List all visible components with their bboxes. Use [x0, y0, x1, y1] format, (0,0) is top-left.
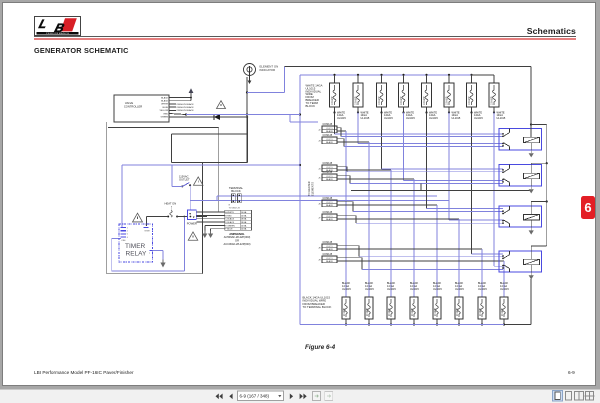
switch S2 heat on [165, 202, 179, 218]
svg-text:14GA: 14GA [241, 224, 247, 227]
svg-text:LOAD: LOAD [121, 239, 126, 242]
svg-text:J6: J6 [318, 204, 321, 206]
svg-text:1: 1 [127, 227, 128, 229]
label wire note top [306, 84, 323, 108]
wire breaker CB1 to relay contact [335, 113, 504, 135]
svg-text:J4: J4 [318, 169, 321, 171]
wire J2 lower row to bottom breaker [337, 131, 346, 297]
wire J5 lower row to bottom breaker [337, 179, 414, 297]
svg-text:VALVE: VALVE [125, 101, 133, 105]
connector J6 CON6-25 [318, 198, 337, 207]
svg-text:UL1015: UL1015 [433, 288, 442, 291]
connector J8 CON6-25 [318, 242, 337, 251]
terminal block TB1 [229, 186, 244, 210]
wire blue feed horizontal [186, 115, 318, 123]
wire inner routing [108, 117, 247, 212]
svg-text:UL1015: UL1015 [342, 288, 351, 291]
svg-text:BLACK: BLACK [161, 100, 168, 103]
svg-text:INDICATOR: INDICATOR [260, 68, 276, 72]
warning triangle near switch S1 [193, 177, 203, 185]
breaker CB7 10A [467, 74, 484, 120]
svg-text:UL1015: UL1015 [384, 117, 393, 120]
svg-text:WHITE: WHITE [326, 202, 333, 204]
wire outer loop left [107, 122, 203, 274]
svg-text:4: 4 [127, 237, 128, 239]
label amphenol [224, 232, 251, 246]
svg-text:2: 2 [127, 231, 128, 233]
svg-text:20 AMP: 20 AMP [411, 307, 414, 316]
svg-text:3: 3 [146, 225, 147, 227]
wire relay chain [531, 125, 548, 260]
wire J8 lower row to bottom breaker [337, 249, 482, 297]
svg-text:20 AMP: 20 AMP [366, 307, 369, 316]
wire J4 lower row to bottom breaker [337, 170, 391, 297]
svg-text:6-9 (167 / 348): 6-9 (167 / 348) [240, 393, 270, 398]
svg-text:D BLACK: D BLACK [225, 221, 235, 224]
diode CR1 [169, 114, 248, 120]
svg-text:18GA: 18GA [241, 221, 247, 224]
svg-text:WHITE: WHITE [326, 176, 333, 178]
relay K5 timer relay [119, 224, 153, 262]
svg-text:BLOCK: BLOCK [306, 104, 316, 108]
svg-text:GREEN: GREEN [161, 117, 169, 119]
svg-text:WHITE: WHITE [326, 216, 333, 218]
svg-text:CONTROLLER: CONTROLLER [124, 105, 142, 109]
svg-text:TO TERMINAL BLOCK: TO TERMINAL BLOCK [303, 305, 332, 309]
svg-text:14GA: 14GA [241, 228, 247, 231]
wire blue breaker rail [300, 74, 471, 76]
connector J3 CON6-25 [318, 135, 337, 144]
wire J6 lower row to bottom breaker [337, 205, 437, 297]
svg-text:POWER: POWER [187, 222, 197, 226]
svg-text:WHITE: WHITE [326, 128, 333, 130]
svg-text:20 AMP: 20 AMP [479, 307, 482, 316]
wire breaker CB8 to relay contact [494, 113, 503, 267]
svg-text:RELAY: RELAY [126, 250, 147, 257]
wire J2 upper row to relay [337, 128, 503, 137]
wire breaker CB2 to relay contact [358, 113, 503, 144]
switch S1 115VAC outlet [179, 175, 191, 188]
svg-text:J8: J8 [318, 248, 321, 250]
connector J2 CON6-25 [318, 124, 337, 133]
svg-text:ORG6-25 BLACK: ORG6-25 BLACK [177, 109, 195, 112]
svg-text:UL1015: UL1015 [478, 288, 487, 291]
wire long black cross [351, 183, 531, 190]
wire timer output [153, 251, 166, 268]
svg-text:7: 7 [149, 253, 150, 255]
breaker CB13 20A [433, 282, 442, 326]
wire breaker CB5 to relay contact [427, 113, 504, 209]
svg-text:BLUE: BLUE [163, 107, 169, 109]
wire top feed frame [284, 67, 532, 126]
svg-text:ORG6-25 BLACK: ORG6-25 BLACK [177, 106, 195, 109]
wire heat-on row [147, 216, 208, 226]
relay K1 [499, 129, 542, 158]
svg-text:HEAT ON: HEAT ON [165, 202, 177, 206]
svg-text:18GA: 18GA [241, 218, 247, 221]
svg-text:WHITE: WHITE [326, 139, 333, 141]
warning triangle below power [188, 232, 198, 240]
svg-text:J3: J3 [318, 141, 321, 143]
connector J9 CON6-25 [318, 254, 337, 263]
label wire note bottom [303, 296, 332, 310]
svg-text:UL1015: UL1015 [497, 117, 506, 120]
wire main blue bus vertical [299, 75, 301, 325]
wire black pair to chassis arrow [169, 88, 193, 100]
svg-text:B RED: B RED [225, 215, 232, 217]
breaker CB3 10A [377, 74, 394, 120]
wire breaker CB7 to relay contact [472, 113, 504, 254]
svg-text:UL1015: UL1015 [429, 117, 438, 120]
svg-text:14GA: 14GA [241, 211, 247, 214]
breaker CB14 20A [455, 282, 464, 326]
wire J6 upper row to relay [337, 202, 503, 212]
svg-text:OUTLET: OUTLET [179, 178, 190, 182]
wire J3 upper row to relay [337, 139, 503, 147]
svg-text:10 AMP: 10 AMP [355, 96, 358, 105]
svg-text:TIMER: TIMER [125, 243, 146, 250]
breaker CB16 20A [500, 282, 509, 326]
svg-text:TO HEATER: TO HEATER [307, 181, 311, 196]
svg-text:TO W22 J3: TO W22 J3 [229, 208, 241, 210]
wire breaker CB3 to relay contact [382, 113, 504, 169]
wire J4 upper row to relay [337, 167, 503, 172]
wire breaker CB4 to relay contact [404, 113, 504, 181]
svg-text:WHITE: WHITE [161, 104, 168, 106]
wire J9 upper row to relay [337, 258, 503, 270]
svg-text:J5: J5 [318, 178, 321, 180]
svg-text:ELEMENTS: ELEMENTS [310, 182, 314, 196]
svg-text:BLOCK: BLOCK [231, 189, 241, 193]
svg-text:WHITE: WHITE [326, 246, 333, 248]
svg-text:UL1015: UL1015 [387, 288, 396, 291]
svg-text:BLACK: BLACK [326, 248, 333, 251]
svg-text:F BLUE: F BLUE [225, 229, 233, 231]
valve controller U1 [114, 95, 169, 122]
svg-text:YELLOW: YELLOW [159, 110, 168, 112]
relay K4 [499, 251, 542, 280]
breaker CB1 10A [330, 74, 347, 120]
wire switch to power plug [189, 185, 191, 210]
wire lamp feed [246, 77, 248, 163]
wire J5 upper row to relay [337, 176, 503, 184]
svg-text:WHITE: WHITE [326, 258, 333, 260]
svg-text:10 AMP: 10 AMP [400, 96, 403, 105]
svg-text:BLACK: BLACK [326, 178, 333, 181]
svg-text:6: 6 [127, 234, 128, 236]
breaker CB2 10A [353, 74, 370, 120]
breaker CB15 20A [478, 282, 487, 326]
svg-text:14GA: 14GA [241, 214, 247, 217]
connector J1 amphenol table [225, 210, 252, 230]
svg-text:WHITE: WHITE [326, 167, 333, 169]
svg-text:J2: J2 [318, 130, 321, 132]
wire relay4 to bottom rail [504, 279, 531, 325]
svg-text:BLACK: BLACK [161, 96, 168, 99]
svg-text:UL1015: UL1015 [474, 117, 483, 120]
warning triangle above timer [133, 213, 143, 222]
breaker CB5 10A [422, 74, 439, 120]
svg-text:20 AMP: 20 AMP [434, 307, 437, 316]
svg-text:10 AMP: 10 AMP [331, 96, 334, 105]
wire table pins [197, 212, 225, 238]
wire blue wrap timer loop [112, 216, 186, 271]
svg-text:UL1015: UL1015 [406, 117, 415, 120]
wire blue drop to switch [172, 165, 182, 187]
warning triangle near diode [217, 101, 226, 109]
svg-text:10 AMP: 10 AMP [378, 96, 381, 105]
lamp DS1 element-on indicator [244, 64, 279, 85]
svg-text:BLACK: BLACK [326, 260, 333, 263]
svg-text:20 AMP: 20 AMP [501, 307, 504, 316]
svg-text:20 AMP: 20 AMP [343, 307, 346, 316]
svg-text:J7: J7 [318, 218, 321, 220]
breaker CB8 10A [471, 75, 506, 120]
wire blue to timer [122, 165, 300, 227]
svg-text:BLACK: BLACK [326, 130, 333, 133]
wire bottom blue rail [300, 324, 504, 326]
connector J4 CON6-25 [318, 163, 337, 172]
node labels mid wires [169, 103, 194, 112]
svg-text:J9: J9 [318, 260, 321, 262]
svg-text:A WHITE: A WHITE [225, 211, 234, 214]
svg-text:BLACK: BLACK [326, 141, 333, 144]
svg-text:UL1015: UL1015 [337, 117, 346, 120]
connector J7 CON6-25 [318, 212, 337, 221]
svg-text:RED: RED [164, 113, 169, 115]
label to heater elements [307, 181, 314, 196]
svg-text:ACC06AF-28-22P(003): ACC06AF-28-22P(003) [224, 242, 251, 246]
svg-text:C BLACK: C BLACK [225, 218, 235, 221]
svg-text:10 AMP: 10 AMP [423, 96, 426, 105]
svg-text:UL1015: UL1015 [410, 288, 419, 291]
relay K3 [499, 206, 542, 235]
svg-text:UL1015: UL1015 [452, 117, 461, 120]
svg-text:10 AMP: 10 AMP [491, 96, 494, 105]
connector P1 POWER [187, 210, 197, 226]
wire J9 lower row to bottom breaker [337, 261, 504, 297]
breaker CB12 20A [410, 282, 419, 326]
breaker CB4 10A [399, 74, 416, 120]
wire J7 lower row to bottom breaker [337, 219, 459, 297]
svg-text:UL1015: UL1015 [365, 288, 374, 291]
svg-text:20 AMP: 20 AMP [388, 307, 391, 316]
breaker CB10 20A [365, 282, 374, 326]
svg-text:ORG6-25 BLACK: ORG6-25 BLACK [177, 103, 195, 106]
breaker CB11 20A [387, 282, 396, 326]
svg-text:20 AMP: 20 AMP [456, 307, 459, 316]
wire red row [169, 113, 187, 115]
wire blue pair to terminal block [190, 196, 449, 201]
wire breaker CB6 to relay contact [449, 113, 503, 221]
svg-text:8: 8 [229, 205, 231, 207]
wire J8 upper row to relay [337, 246, 503, 257]
svg-text:RESET: RESET [145, 231, 151, 233]
wire lamp to frame [247, 67, 284, 93]
wire J3 lower row to bottom breaker [337, 142, 369, 297]
svg-text:UL1015: UL1015 [455, 288, 464, 291]
svg-text:BLACK: BLACK [326, 204, 333, 207]
relay K2 [499, 165, 542, 194]
svg-text:UL1015: UL1015 [500, 288, 509, 291]
breaker CB6 10A [444, 74, 461, 120]
wire J7 upper row to relay [337, 216, 503, 224]
svg-text:10 AMP: 10 AMP [446, 96, 449, 105]
svg-text:UL1015: UL1015 [361, 117, 370, 120]
connector J5 CON6-25 [318, 172, 337, 181]
breaker CB9 20A [342, 282, 351, 326]
svg-text:E GREEN: E GREEN [225, 225, 235, 227]
svg-text:10 AMP: 10 AMP [468, 96, 471, 105]
svg-text:BLACK: BLACK [326, 218, 333, 221]
